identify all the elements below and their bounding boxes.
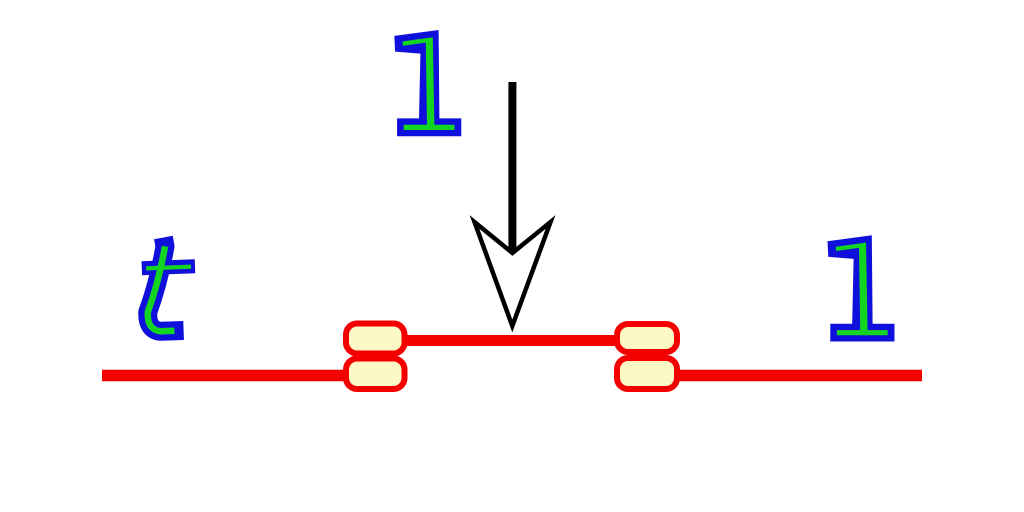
label "t" left : green core bbox=[146, 246, 191, 331]
switch SW1 contact pad top bbox=[346, 324, 405, 354]
wire right bbox=[672, 370, 922, 382]
label "1" right : blue outline bbox=[828, 235, 895, 341]
label "1" top : blue outline bbox=[394, 30, 461, 136]
label "t" left : blue outline bbox=[142, 238, 195, 332]
label "1" right : green core bbox=[836, 243, 888, 336]
arrow shaft bbox=[508, 82, 516, 250]
arrowhead bbox=[475, 222, 551, 326]
wire left bbox=[102, 370, 352, 382]
switch SW1 contact pad bottom bbox=[346, 359, 405, 390]
switch SW2 contact pad top bbox=[617, 324, 677, 352]
switch SW2 contact pad bottom bbox=[617, 358, 677, 389]
label "1" top : green core bbox=[403, 37, 455, 130]
wire middle bbox=[400, 335, 624, 346]
